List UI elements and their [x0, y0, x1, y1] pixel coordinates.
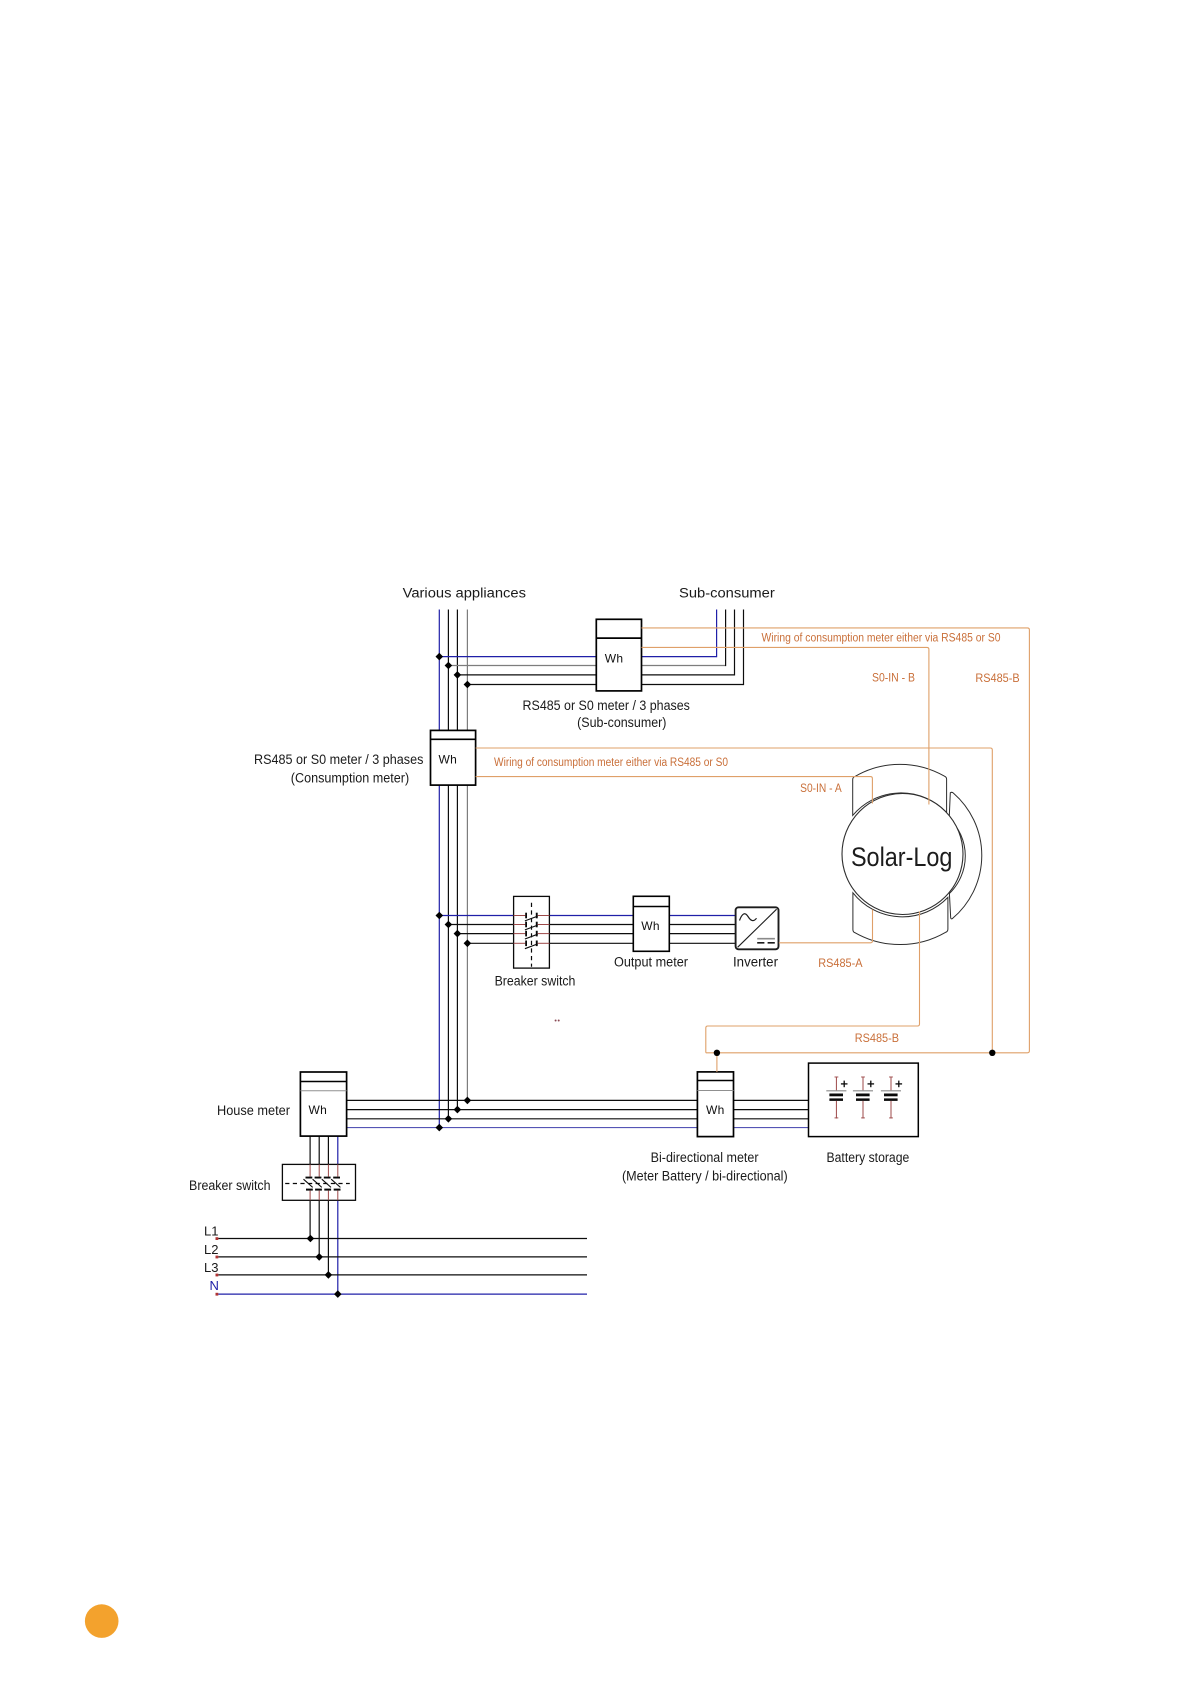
wire orange: S0-IN-B drop to Solar-Log — [642, 647, 929, 804]
node junction L3 bus — [325, 1271, 333, 1279]
svg-text:L2: L2 — [204, 1242, 218, 1257]
svg-text:Wh: Wh — [605, 652, 624, 666]
svg-text:Wh: Wh — [706, 1103, 725, 1117]
svg-text:Wh: Wh — [438, 753, 457, 767]
svg-text:Sub-consumer: Sub-consumer — [679, 586, 775, 601]
wire L1 bus — [218, 1238, 587, 1240]
node junction RS485-B right — [989, 1050, 995, 1056]
wire orange: stub to bi-directional meter — [716, 1053, 718, 1072]
wire black riser 4 to Sub-consumer — [743, 610, 745, 686]
node junction black4 top — [464, 681, 472, 689]
svg-text:Bi-directional meter: Bi-directional meter — [651, 1150, 759, 1165]
battery cell 3 — [881, 1077, 902, 1119]
wire orange: S0-IN-A drop to Solar-Log — [476, 777, 873, 804]
battery cell 2 — [853, 1077, 874, 1119]
battery cell 1 — [826, 1077, 847, 1119]
svg-text:Breaker switch: Breaker switch — [495, 973, 576, 988]
meter output (Wh) — [633, 896, 669, 951]
wire black drop house meter to L3 — [327, 1136, 329, 1275]
svg-text:S0-IN - B: S0-IN - B — [872, 673, 915, 685]
breaker pole N — [331, 1164, 340, 1200]
svg-text:Breaker switch: Breaker switch — [189, 1178, 271, 1193]
wire black drop house meter to L1 — [309, 1136, 311, 1238]
svg-text:N: N — [210, 1278, 219, 1293]
node junction blue top — [436, 653, 444, 661]
svg-text:Wh: Wh — [641, 919, 660, 933]
node junction at house line 3 — [445, 1115, 453, 1123]
node junction black3 top — [454, 671, 462, 679]
solar-log right flap — [949, 792, 982, 919]
meter sub-consumer (Wh) — [596, 619, 641, 691]
meter bi-directional (Wh) — [697, 1072, 733, 1137]
wire orange: RS485-A from inverter to Solar-Log — [779, 910, 873, 943]
svg-text:Various appliances: Various appliances — [403, 586, 527, 601]
node N start marker — [216, 1293, 219, 1296]
meter consumption (Wh) — [431, 730, 476, 785]
svg-text:Battery storage: Battery storage — [827, 1150, 910, 1165]
stray dots artifact — [555, 1020, 557, 1022]
wire black horizontal house meter to battery storage 2 — [347, 1109, 809, 1111]
node junction blue at house line 4 — [436, 1124, 444, 1132]
wire L2 vertical bundle (black) — [447, 610, 449, 1119]
svg-text:Wh: Wh — [308, 1103, 327, 1117]
svg-text:S0-IN - A: S0-IN - A — [800, 783, 842, 795]
svg-text:Output meter: Output meter — [614, 954, 688, 969]
wire black horizontal 4 to inverter — [467, 942, 735, 944]
wire black horizontal house meter to battery storage 1 — [347, 1099, 809, 1101]
breaker pole 3 — [514, 931, 550, 939]
node L1 start marker — [216, 1237, 219, 1240]
node junction N bus — [334, 1290, 342, 1298]
svg-text:Wiring of consumption meter ei: Wiring of consumption meter either via R… — [762, 633, 1001, 645]
decorative page bullet — [85, 1604, 119, 1638]
breaker pole L1 — [304, 1164, 313, 1200]
solar-log bottom flap — [853, 893, 948, 945]
breaker switch (bottom, 4-pole horizontal) — [282, 1164, 355, 1200]
wire L3 vertical bundle (black) — [456, 610, 458, 1110]
svg-text:House meter: House meter — [217, 1103, 290, 1118]
svg-text:L1: L1 — [204, 1224, 218, 1239]
svg-text:Inverter: Inverter — [733, 954, 778, 969]
breaker pole 1 — [514, 913, 550, 921]
svg-text:RS485-B: RS485-B — [855, 1033, 900, 1045]
svg-text:(Sub-consumer): (Sub-consumer) — [577, 715, 666, 730]
wire blue horizontal to sub-consumer meter — [439, 656, 716, 658]
svg-text:RS485 or S0 meter / 3 phases: RS485 or S0 meter / 3 phases — [523, 698, 691, 713]
wire blue horizontal to breaker/output meter/inverter — [439, 915, 735, 917]
node junction black3 middle — [454, 930, 462, 938]
wire N vertical bundle (gray) — [466, 610, 468, 1101]
svg-text:RS485 or S0 meter / 3 phases: RS485 or S0 meter / 3 phases — [254, 752, 424, 767]
wire blue drop house meter to N — [337, 1136, 339, 1294]
node junction black4 middle — [464, 940, 472, 948]
breaker pole 4 — [514, 941, 550, 949]
svg-text:RS485-A: RS485-A — [818, 958, 863, 970]
node junction at house line 2 — [454, 1106, 462, 1114]
svg-text:Solar-Log: Solar-Log — [851, 842, 953, 872]
wire N bus (blue) — [218, 1293, 587, 1295]
wire orange: sub-consumer meter wiring loop to RS485-B bottom — [642, 628, 1030, 1053]
inverter U1 — [736, 907, 779, 949]
wire black riser 2 to Sub-consumer — [725, 610, 727, 667]
svg-text:RS485-B: RS485-B — [975, 673, 1020, 685]
wire black horizontal 4 to sub-consumer meter — [467, 684, 743, 686]
svg-text:(Meter Battery / bi-directiona: (Meter Battery / bi-directional) — [622, 1169, 788, 1184]
wire gray horizontal to sub-consumer meter — [448, 665, 725, 667]
wire black horizontal 3 to inverter — [457, 933, 735, 935]
breaker pole L3 — [322, 1164, 331, 1200]
node junction blue middle — [436, 912, 444, 920]
node junction L2 bus — [315, 1253, 323, 1261]
breaker pole 2 — [514, 922, 550, 930]
wire blue riser to Sub-consumer — [716, 610, 718, 658]
svg-text:(Consumption meter): (Consumption meter) — [291, 771, 409, 786]
wire L2 bus — [218, 1256, 587, 1258]
wire L1 vertical bundle (blue) from Various appliances down to house-meter line — [438, 610, 440, 1128]
wire black riser 3 to Sub-consumer — [734, 610, 736, 676]
wire black horizontal 2 to inverter — [448, 924, 735, 926]
breaker pole L2 — [313, 1164, 322, 1200]
node L2 start marker — [216, 1256, 219, 1259]
wire black horizontal 3 to sub-consumer meter — [457, 674, 734, 676]
node junction RS485-B at meter stub — [714, 1050, 720, 1056]
wire black drop house meter to L2 — [318, 1136, 320, 1257]
node L3 start marker — [216, 1274, 219, 1277]
solar-log circle — [842, 794, 963, 915]
node junction L1 bus — [307, 1235, 315, 1243]
wire orange: RS485-B from Solar-Log bottom to junction — [706, 912, 920, 1053]
node junction black2 middle — [445, 921, 453, 929]
wire L3 bus — [218, 1274, 587, 1276]
svg-text:L3: L3 — [204, 1260, 218, 1275]
node junction gray at house line 1 — [464, 1097, 472, 1105]
breaker switch (middle, 4-pole) — [514, 896, 550, 968]
meter house (Wh) — [300, 1072, 346, 1136]
svg-text:Wiring of consumption meter ei: Wiring of consumption meter either via R… — [494, 757, 728, 769]
solar-log top flap — [853, 764, 947, 815]
wire orange: consumption meter wiring drop — [476, 748, 993, 1053]
wire blue horizontal house meter to battery storage — [347, 1127, 809, 1129]
node junction gray top — [445, 662, 453, 670]
wire black horizontal house meter to battery storage 3 — [347, 1118, 809, 1120]
battery storage box — [809, 1063, 919, 1137]
